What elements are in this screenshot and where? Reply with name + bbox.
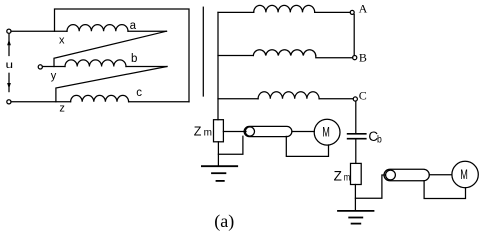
svg-text:Z: Z <box>194 124 202 138</box>
label Zm right <box>334 168 351 183</box>
wire coil A to terminal A <box>315 11 351 13</box>
wire from y terminal to winding b <box>42 66 65 68</box>
secondary coil C <box>258 92 319 99</box>
shield bond loop M2 <box>424 181 465 199</box>
transformer enclosure box <box>55 9 190 102</box>
transformer core bar <box>202 7 204 96</box>
voltage arrow upper segment <box>7 34 11 55</box>
motor M1 <box>314 119 340 145</box>
zigzag diagonal a-to-y <box>54 31 167 66</box>
terminal circle C <box>353 97 357 101</box>
wire A down to B <box>353 14 355 55</box>
secondary coil B <box>253 50 315 56</box>
wire resistor to ground <box>217 142 219 166</box>
winding coil a <box>67 25 128 32</box>
wire cable to motor M1 <box>292 131 314 133</box>
svg-text:y: y <box>51 70 57 82</box>
terminal circle y <box>38 65 42 69</box>
wire a right <box>128 30 167 32</box>
svg-text:b: b <box>377 135 382 146</box>
svg-text:M: M <box>322 125 330 140</box>
voltage arrow lower segment <box>7 73 11 91</box>
wire to coil A <box>218 11 254 13</box>
terminal circle bottom-left <box>7 100 11 104</box>
svg-text:u: u <box>6 59 14 71</box>
shielded cable right <box>384 169 429 181</box>
svg-text:A: A <box>359 2 368 16</box>
svg-text:x: x <box>59 35 65 47</box>
svg-text:(a): (a) <box>214 211 234 232</box>
wire cable to motor M2 <box>429 174 451 176</box>
svg-text:B: B <box>359 50 367 64</box>
svg-text:c: c <box>136 87 142 99</box>
shield branch wire left cable <box>218 136 243 154</box>
ground symbol right <box>338 211 374 224</box>
wire resistor to cable core <box>223 131 246 133</box>
wire coil B to terminal B <box>316 56 353 58</box>
shield bond loop M1 <box>286 136 328 156</box>
svg-text:M: M <box>460 167 468 182</box>
label Zm left <box>194 124 212 138</box>
terminal circle A <box>350 10 354 14</box>
wire terminal C down to capacitor <box>355 101 357 133</box>
svg-text:a: a <box>130 20 137 32</box>
terminal circle top-left <box>7 29 11 33</box>
motor M2 <box>452 161 478 187</box>
ground symbol left <box>202 166 237 181</box>
shielded cable left <box>244 126 292 136</box>
label Cb <box>368 129 382 146</box>
wire c right to box corner <box>129 101 189 103</box>
svg-text:m: m <box>204 127 212 138</box>
wire coil C to terminal C <box>319 98 353 100</box>
secondary bus vertical <box>217 12 219 119</box>
wire b right <box>126 66 167 68</box>
secondary coil A <box>254 5 315 12</box>
resistor Zm right <box>351 163 362 184</box>
terminal circle B <box>353 56 357 60</box>
capacitor Cb <box>348 134 366 139</box>
wire capacitor to resistor Zm right <box>355 139 357 164</box>
zigzag diagonal b-to-z <box>56 67 167 102</box>
svg-text:z: z <box>59 103 65 115</box>
wire to coil B <box>218 55 253 57</box>
svg-text:C: C <box>359 88 367 102</box>
branch wire to cable right <box>355 175 385 198</box>
resistor Zm left <box>214 120 224 142</box>
winding coil c <box>71 95 129 101</box>
wire resistor to ground right <box>354 185 356 211</box>
svg-text:Z: Z <box>334 168 342 183</box>
wire from top terminal to winding a <box>11 30 67 32</box>
svg-text:b: b <box>131 53 137 65</box>
svg-text:m: m <box>344 172 351 183</box>
wire to coil C <box>218 98 258 100</box>
winding coil b <box>65 60 126 67</box>
wire from bottom terminal to winding c <box>11 101 71 103</box>
